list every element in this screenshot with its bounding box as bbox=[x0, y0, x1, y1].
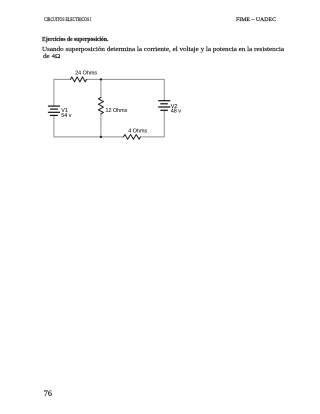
wire middle top (node B to R2) bbox=[100, 79, 102, 97]
wire top-right (R1 to node B to V2) bbox=[87, 79, 165, 100]
junction node B (top) bbox=[100, 78, 102, 80]
header right bbox=[236, 18, 276, 23]
resistor R1 24 Ohms bbox=[71, 77, 87, 82]
label V1 designator bbox=[61, 108, 68, 114]
svg-text:4 Ohms: 4 Ohms bbox=[128, 129, 147, 135]
label R1 value bbox=[75, 71, 97, 77]
wire top-left (node A to R1) bbox=[54, 79, 71, 106]
wire bottom-right (R3 to V2) bbox=[141, 110, 165, 137]
battery V1 54 v bbox=[48, 106, 60, 115]
label V2 designator bbox=[171, 104, 178, 110]
circuit schematic bbox=[40, 64, 185, 144]
svg-text:54 v: 54 v bbox=[61, 113, 71, 119]
label V2 value bbox=[171, 108, 181, 114]
wire bottom-left (V1 to node C to R3) bbox=[54, 115, 124, 136]
label R2 value bbox=[106, 108, 128, 114]
label R3 value bbox=[128, 129, 147, 135]
paragraph line 2 bbox=[43, 53, 60, 60]
battery V2 48 v bbox=[158, 101, 170, 111]
svg-text:12 Ohms: 12 Ohms bbox=[106, 108, 128, 114]
wire middle bottom (R2 to node C) bbox=[100, 114, 102, 137]
header left bbox=[44, 18, 91, 23]
label V1 value bbox=[61, 113, 71, 119]
resistor R3 4 Ohms bbox=[124, 135, 141, 140]
svg-text:48 v: 48 v bbox=[171, 108, 181, 114]
svg-text:24 Ohms: 24 Ohms bbox=[75, 71, 97, 77]
junction node C (bottom) bbox=[100, 136, 102, 138]
page number bbox=[44, 389, 52, 398]
title bbox=[42, 36, 108, 43]
resistor R2 12 Ohms bbox=[98, 98, 103, 114]
paragraph line 1 bbox=[42, 46, 284, 53]
